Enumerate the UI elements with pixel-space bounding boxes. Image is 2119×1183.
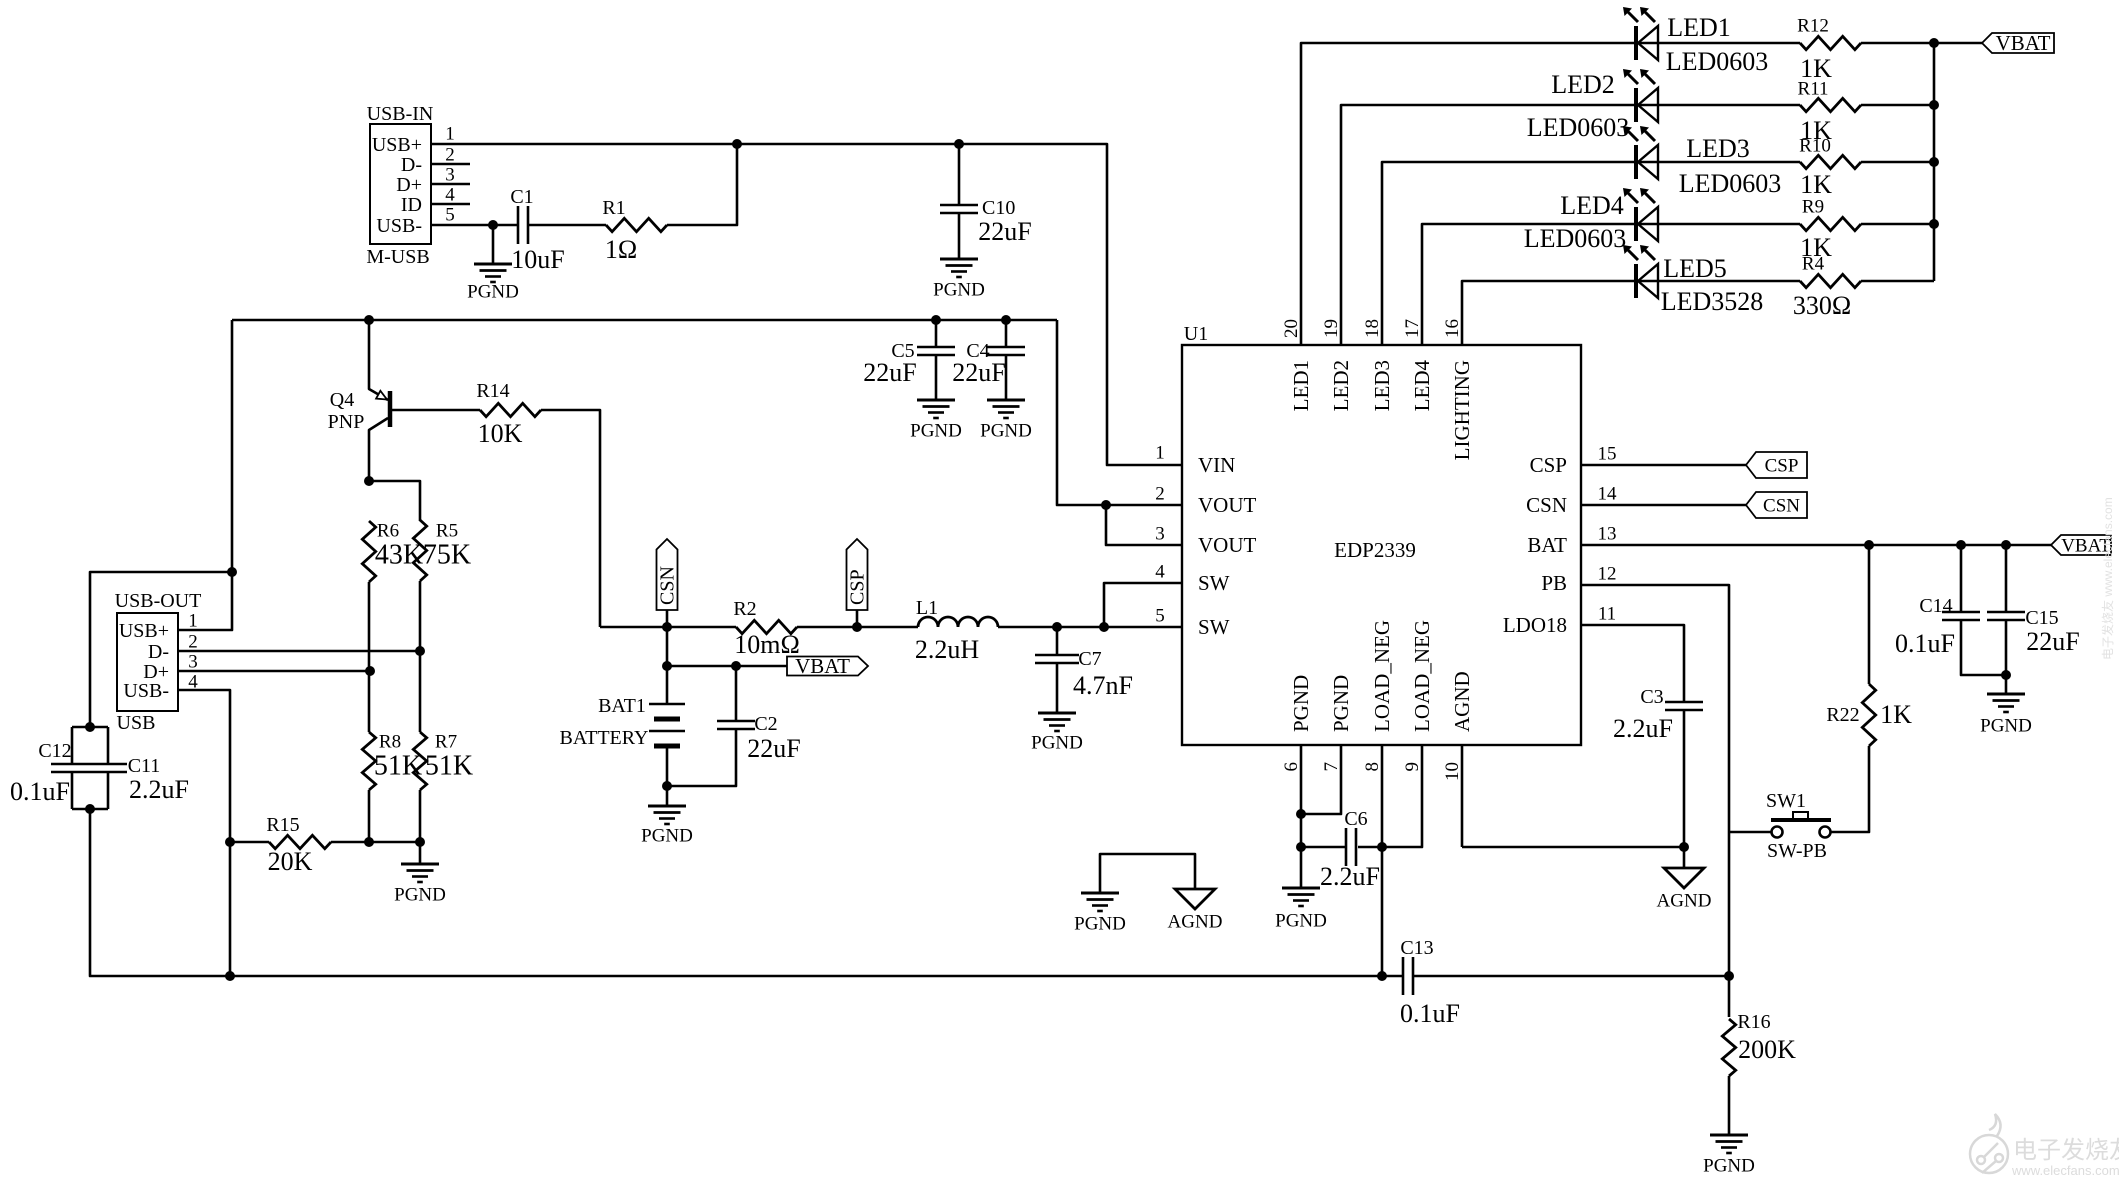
wire R22 bottom to SW1 — [1831, 746, 1869, 832]
svg-text:CSN: CSN — [657, 566, 679, 605]
wire USB+ bus to VIN — [431, 144, 1182, 465]
svg-text:电子发烧友 www.elecfans.com: 电子发烧友 www.elecfans.com — [2100, 497, 2115, 660]
svg-text:51K: 51K — [425, 751, 473, 782]
ground PGND under C15 — [1987, 694, 2025, 712]
svg-text:CSP: CSP — [847, 569, 869, 605]
svg-text:PGND: PGND — [1980, 715, 2032, 736]
IC U1 EDP2339 body — [1182, 345, 1581, 745]
wire bus left drop to USB-OUT — [179, 320, 232, 630]
svg-text:USB-IN: USB-IN — [367, 103, 434, 125]
svg-text:C1: C1 — [510, 186, 533, 208]
wire R15 left — [230, 841, 269, 844]
svg-text:CSN: CSN — [1763, 495, 1800, 516]
wire pin8 down — [1381, 745, 1384, 976]
svg-text:LED0603: LED0603 — [1524, 224, 1627, 253]
svg-text:9: 9 — [1402, 762, 1423, 772]
wire U1 pin to LED2 — [1341, 105, 1636, 345]
svg-text:USB-: USB- — [376, 215, 422, 237]
svg-text:LED0603: LED0603 — [1679, 169, 1782, 198]
svg-text:7: 7 — [1321, 762, 1342, 772]
svg-text:C13: C13 — [1400, 937, 1433, 959]
svg-text:PB: PB — [1541, 571, 1567, 595]
svg-text:PGND: PGND — [933, 279, 985, 300]
junction VBAT LED3 — [1929, 157, 1939, 167]
svg-text:LED4: LED4 — [1560, 191, 1624, 220]
svg-text:R8: R8 — [379, 731, 401, 752]
net flag CSP pin15 — [1746, 452, 1807, 478]
svg-text:U1: U1 — [1184, 323, 1208, 345]
wire VBAT node to flag — [667, 665, 787, 668]
wire pin9 down — [1358, 745, 1422, 847]
wire Q4 emitter from bus — [369, 320, 388, 400]
svg-text:VOUT: VOUT — [1198, 533, 1256, 557]
wire VOUT bus — [232, 319, 1057, 322]
svg-text:LDO18: LDO18 — [1503, 613, 1567, 637]
svg-text:CSN: CSN — [1526, 493, 1567, 517]
svg-text:2.2uH: 2.2uH — [915, 635, 980, 664]
svg-text:C12: C12 — [38, 740, 71, 762]
ground PGND under battery — [648, 806, 686, 824]
junction battery C2 bottom — [662, 781, 672, 791]
wire C12 rail bottom — [71, 772, 74, 809]
svg-text:C11: C11 — [128, 755, 161, 777]
ground AGND under C3 — [1664, 868, 1704, 888]
wire R22 top — [1868, 545, 1871, 684]
svg-text:USB-: USB- — [123, 680, 169, 702]
svg-text:R11: R11 — [1798, 78, 1829, 99]
wire R7 top — [419, 651, 422, 732]
svg-text:1: 1 — [188, 610, 198, 631]
junction D- R5 R7 — [415, 646, 425, 656]
svg-text:10: 10 — [1442, 762, 1463, 781]
svg-text:AGND: AGND — [1450, 671, 1474, 732]
wire C4 stem — [1005, 320, 1008, 347]
wire LED5 to resistor — [1636, 280, 1800, 283]
junction SW pins node — [1099, 622, 1109, 632]
wire R14 down to SW node — [541, 410, 600, 627]
svg-text:R14: R14 — [476, 380, 509, 402]
svg-text:LOAD_NEG: LOAD_NEG — [1370, 620, 1394, 732]
wire battery ground stem — [666, 786, 669, 806]
svg-text:VOUT: VOUT — [1198, 493, 1256, 517]
svg-text:10mΩ: 10mΩ — [734, 630, 800, 659]
svg-text:LED3528: LED3528 — [1661, 287, 1764, 316]
wire LED2 to resistor — [1636, 104, 1800, 107]
wire SW pin4 stub — [1104, 583, 1182, 627]
wire CSN node down to VBAT node — [666, 627, 669, 666]
junction C3 AGND — [1679, 842, 1689, 852]
svg-text:PGND: PGND — [1074, 913, 1126, 934]
wire C15 stem — [2005, 545, 2008, 612]
svg-text:PGND: PGND — [467, 281, 519, 302]
capacitor C1 — [518, 206, 528, 244]
junction pin8 C6 — [1377, 842, 1387, 852]
wire VOUT pin3 link — [1106, 505, 1182, 545]
wire battery top — [666, 666, 669, 704]
LED LED4 — [1623, 188, 1658, 241]
svg-text:22uF: 22uF — [863, 358, 916, 387]
junction VBAT LED1 — [1929, 38, 1939, 48]
svg-text:15: 15 — [1598, 443, 1617, 464]
resistor R8 — [362, 732, 375, 790]
junction bus C5 — [931, 315, 941, 325]
svg-text:USB+: USB+ — [119, 620, 169, 642]
wire USB-OUT D+ line — [178, 670, 370, 673]
wire R9 to bus — [1861, 223, 1934, 226]
wire PB pin12 to SW1 — [1581, 585, 1729, 976]
svg-text:R6: R6 — [377, 520, 399, 541]
wire Q4 collector — [369, 418, 388, 481]
svg-text:22uF: 22uF — [2026, 627, 2079, 656]
resistor R2 — [736, 620, 797, 633]
svg-text:LED4: LED4 — [1410, 360, 1434, 412]
wire LED3 to resistor — [1636, 161, 1800, 164]
junction USB+ R1 branch — [732, 139, 742, 149]
capacitor C14 — [1942, 612, 1980, 620]
wire branch to C12 C11 — [90, 572, 232, 727]
svg-text:PGND: PGND — [1031, 732, 1083, 753]
capacitor C2 — [717, 721, 755, 729]
power flag VBAT bat — [2051, 535, 2111, 556]
wire C11 rail bottom — [107, 772, 110, 809]
svg-text:R9: R9 — [1802, 196, 1824, 217]
svg-text:PGND: PGND — [1275, 910, 1327, 931]
wire U1 pin to LED5 — [1462, 281, 1636, 345]
svg-text:22uF: 22uF — [747, 734, 800, 763]
switch SW1 actuator — [1771, 812, 1831, 820]
svg-text:R16: R16 — [1737, 1011, 1770, 1033]
svg-text:0.1uF: 0.1uF — [1895, 629, 1955, 658]
wire R16 bottom — [1728, 1076, 1731, 1135]
svg-text:C14: C14 — [1919, 595, 1952, 617]
svg-text:10K: 10K — [478, 419, 523, 448]
svg-text:4: 4 — [1155, 561, 1165, 582]
connector USB-IN (M-USB) — [370, 124, 431, 244]
svg-text:C3: C3 — [1640, 686, 1663, 708]
wire cap pair top tie — [72, 726, 108, 729]
ground PGND under C7 — [1038, 713, 1076, 731]
svg-text:LED5: LED5 — [1663, 254, 1727, 283]
svg-text:PGND: PGND — [1329, 675, 1353, 732]
svg-text:LED2: LED2 — [1329, 360, 1353, 411]
svg-text:C6: C6 — [1344, 808, 1367, 830]
svg-text:SW: SW — [1198, 615, 1230, 639]
connector USB-OUT — [117, 613, 178, 711]
svg-text:VBAT: VBAT — [1996, 31, 2051, 55]
svg-text:10uF: 10uF — [511, 245, 564, 274]
wire USB-IN ID stub — [431, 203, 470, 206]
svg-text:17: 17 — [1402, 319, 1423, 338]
junction VBAT LED4 — [1929, 219, 1939, 229]
wire R11 to bus — [1861, 104, 1934, 107]
ground PGND under C5 — [917, 400, 955, 418]
svg-text:LED0603: LED0603 — [1666, 47, 1769, 76]
capacitor C4 — [987, 347, 1025, 355]
svg-text:CSP: CSP — [1530, 453, 1567, 477]
svg-text:VIN: VIN — [1198, 453, 1235, 477]
wire USB-IN D+ stub — [431, 183, 470, 186]
resistor R14 — [480, 403, 541, 416]
resistor R1 — [606, 218, 667, 231]
svg-text:LED1: LED1 — [1289, 360, 1313, 411]
inductor L1 — [918, 617, 998, 627]
svg-text:22uF: 22uF — [978, 217, 1031, 246]
junction Q4 collector node — [364, 476, 374, 486]
ground PGND under pin6 — [1282, 888, 1320, 906]
junction C2 top — [731, 661, 741, 671]
svg-text:1Ω: 1Ω — [605, 235, 637, 264]
svg-text:CSP: CSP — [1765, 455, 1799, 476]
junction bottom bus pin8 — [1377, 971, 1387, 981]
ground AGND standalone — [1175, 889, 1215, 909]
resistor R16 — [1722, 1019, 1735, 1076]
resistor R15 — [269, 835, 331, 848]
resistor R5 — [413, 520, 426, 581]
svg-text:14: 14 — [1598, 483, 1618, 504]
capacitor C7 — [1035, 655, 1079, 663]
svg-text:1: 1 — [445, 123, 455, 144]
wire C5 stem — [935, 320, 938, 347]
svg-text:13: 13 — [1598, 523, 1617, 544]
wire C7 to ground — [1056, 663, 1059, 713]
watermark logo — [1970, 1114, 2008, 1173]
svg-text:0.1uF: 0.1uF — [10, 777, 70, 806]
capacitor C12 and C11 plates — [51, 764, 127, 772]
wire R12 to VBAT — [1861, 42, 1982, 45]
wire USB-OUT D- line — [178, 650, 420, 653]
wire C15 bottom — [2005, 620, 2008, 694]
junction C14 C15 ground — [2001, 670, 2011, 680]
svg-text:PGND: PGND — [394, 884, 446, 905]
svg-text:R2: R2 — [733, 598, 756, 620]
wire C5 to ground — [935, 355, 938, 400]
svg-text:R4: R4 — [1802, 253, 1825, 274]
wire R2 to L1 — [797, 626, 918, 629]
svg-text:LED1: LED1 — [1667, 13, 1731, 42]
wire SW row — [600, 626, 736, 629]
svg-text:R7: R7 — [435, 731, 457, 752]
wire C6 left — [1301, 846, 1346, 849]
wire USB-IN USB- to C1 — [431, 224, 517, 227]
svg-text:PGND: PGND — [980, 420, 1032, 441]
svg-text:19: 19 — [1321, 319, 1342, 338]
wire R1 to USB+ bus — [667, 144, 737, 225]
wire C4 to ground — [1005, 355, 1008, 400]
svg-text:R15: R15 — [266, 814, 299, 836]
wire USB- out down — [178, 690, 230, 976]
svg-text:Q4: Q4 — [330, 389, 354, 411]
svg-text:20K: 20K — [268, 847, 313, 876]
wire C1 node to ground — [492, 225, 495, 264]
wire LED1 to resistor — [1636, 42, 1800, 45]
svg-text:51K: 51K — [374, 751, 422, 782]
wire CSN pin14 — [1581, 504, 1746, 507]
svg-text:LED3: LED3 — [1370, 360, 1394, 411]
capacitor C3 — [1665, 702, 1703, 710]
svg-text:LIGHTING: LIGHTING — [1450, 360, 1474, 460]
power flag VBAT battery — [787, 654, 868, 678]
svg-text:5: 5 — [1155, 605, 1165, 626]
net flag CSN pin14 — [1746, 492, 1807, 518]
wire pin6 down — [1300, 745, 1303, 888]
svg-text:4: 4 — [445, 184, 455, 205]
resistor R4 — [1800, 274, 1861, 287]
junction C12 C11 top — [85, 722, 95, 732]
LED LED2 — [1623, 69, 1658, 122]
svg-text:LED2: LED2 — [1551, 70, 1615, 99]
junction C12 C11 bottom — [85, 804, 95, 814]
svg-text:SW: SW — [1198, 571, 1230, 595]
svg-text:EDP2339: EDP2339 — [1334, 538, 1416, 562]
wire BAT pin13 to VBAT — [1581, 544, 2051, 547]
svg-text:M-USB: M-USB — [366, 246, 429, 268]
junction VBAT node — [662, 661, 672, 671]
svg-text:BAT: BAT — [1527, 533, 1567, 557]
junction VOUT pins — [1101, 500, 1111, 510]
svg-text:PNP: PNP — [328, 411, 365, 433]
svg-text:LED3: LED3 — [1686, 134, 1750, 163]
svg-text:C10: C10 — [982, 197, 1015, 219]
LED LED3 — [1623, 126, 1658, 179]
capacitor C13 — [1403, 957, 1413, 995]
svg-text:PGND: PGND — [1703, 1155, 1755, 1176]
capacitor C6 — [1346, 828, 1356, 866]
wire LED4 to resistor — [1636, 223, 1800, 226]
net flag CSP — [847, 539, 869, 610]
svg-text:PGND: PGND — [641, 825, 693, 846]
svg-text:www.elecfans.com: www.elecfans.com — [2011, 1163, 2119, 1178]
svg-text:R12: R12 — [1797, 15, 1829, 36]
ground PGND under R7 — [401, 864, 439, 882]
svg-text:PGND: PGND — [910, 420, 962, 441]
junction R15 R8 — [364, 837, 374, 847]
svg-text:PGND: PGND — [1289, 675, 1313, 732]
wire C3 bottom — [1683, 710, 1686, 847]
svg-text:C2: C2 — [754, 713, 777, 735]
wire R16 top — [1728, 976, 1731, 1017]
junction BAT R22 — [1864, 540, 1874, 550]
svg-text:USB-OUT: USB-OUT — [115, 590, 202, 612]
svg-text:2: 2 — [188, 631, 198, 652]
wire C7 stem — [1056, 627, 1059, 655]
svg-text:22uF: 22uF — [952, 358, 1005, 387]
ground PGND under R16 — [1710, 1135, 1748, 1153]
wire bus to VOUT pin2 — [1057, 320, 1182, 505]
wire USB-IN D- stub — [431, 163, 470, 166]
wire node to R5 top — [369, 481, 420, 521]
svg-text:AGND: AGND — [1168, 911, 1223, 932]
wire R10 to bus — [1861, 161, 1934, 164]
wire C2 top stem — [735, 666, 738, 721]
wire R5 bottom to D- line — [419, 581, 422, 651]
ground PGND under C4 — [987, 400, 1025, 418]
svg-text:3: 3 — [445, 164, 455, 185]
svg-text:R5: R5 — [436, 520, 458, 541]
wire pin10 to AGND — [1462, 846, 1684, 849]
svg-text:11: 11 — [1598, 603, 1616, 624]
junction CSN node — [662, 622, 672, 632]
wire U1 pin to LED1 — [1301, 43, 1636, 345]
wire C14 bottom — [1961, 620, 2006, 675]
svg-text:R10: R10 — [1799, 135, 1831, 156]
junction BAT C15 — [2001, 540, 2011, 550]
svg-text:3: 3 — [188, 651, 198, 672]
svg-text:1: 1 — [1155, 442, 1165, 463]
svg-text:0.1uF: 0.1uF — [1400, 999, 1460, 1028]
switch SW1 contacts — [1772, 827, 1831, 838]
resistor R11 — [1800, 98, 1861, 111]
net tie PGND AGND — [1100, 854, 1195, 893]
wire C14 stem — [1960, 545, 1963, 612]
svg-text:ID: ID — [401, 194, 422, 216]
wire LED VBAT bus — [1933, 43, 1936, 281]
svg-text:2.2uF: 2.2uF — [1613, 714, 1673, 743]
LED LED5 — [1623, 245, 1658, 298]
transistor Q4 base bar — [388, 391, 393, 427]
ground PGND standalone — [1081, 893, 1119, 911]
junction D+ R6 R8 — [365, 666, 375, 676]
resistor R22 — [1862, 684, 1875, 746]
svg-text:C7: C7 — [1078, 648, 1101, 670]
capacitor C15 — [1987, 612, 2025, 620]
wire C12 rail top — [71, 727, 74, 764]
svg-text:330Ω: 330Ω — [1793, 291, 1851, 320]
resistor R9 — [1800, 217, 1861, 230]
wire cap pair bottom tie — [72, 808, 108, 811]
ground PGND under C1 — [474, 264, 512, 282]
ground PGND under C10 — [940, 259, 978, 277]
wire C2 bottom — [667, 729, 736, 786]
wire R8 bottom — [368, 790, 371, 842]
svg-text:BATTERY: BATTERY — [560, 727, 649, 749]
svg-text:6: 6 — [1281, 762, 1302, 772]
svg-text:18: 18 — [1362, 319, 1383, 338]
wire bottom bus right of C13 — [1413, 975, 1729, 978]
transistor Q4 emitter arrow — [376, 391, 387, 400]
junction C7 node — [1052, 622, 1062, 632]
svg-text:D-: D- — [401, 154, 422, 176]
svg-text:D-: D- — [148, 641, 169, 663]
svg-text:12: 12 — [1598, 563, 1617, 584]
junction USB- C1 node — [488, 220, 498, 230]
wire U1 pin to LED4 — [1422, 224, 1636, 345]
svg-text:2: 2 — [445, 144, 455, 165]
svg-text:USB: USB — [117, 712, 156, 734]
net flag CSN — [657, 539, 679, 610]
svg-text:2.2uF: 2.2uF — [1320, 862, 1380, 891]
wire Q4 base to R14 — [392, 409, 480, 412]
wire pin10 down — [1461, 745, 1464, 847]
svg-text:20: 20 — [1281, 319, 1302, 338]
svg-text:AGND: AGND — [1657, 890, 1712, 911]
capacitor C10 — [940, 205, 978, 213]
battery BAT1 — [649, 704, 685, 746]
junction BAT C14 — [1956, 540, 1966, 550]
resistor R10 — [1800, 155, 1861, 168]
svg-text:USB+: USB+ — [372, 134, 422, 156]
wire CSP flag stem — [856, 610, 859, 627]
wire AGND stem — [1683, 847, 1686, 868]
svg-text:电子发烧友: 电子发烧友 — [2013, 1137, 2119, 1164]
resistor R6 — [362, 521, 375, 582]
junction bottom bus R16 — [1724, 971, 1734, 981]
svg-text:2.2uF: 2.2uF — [129, 775, 189, 804]
wire C11 rail top — [107, 727, 110, 764]
svg-text:SW-PB: SW-PB — [1767, 840, 1827, 862]
wire pin7 down — [1301, 745, 1341, 814]
svg-text:VBAT: VBAT — [795, 654, 850, 678]
svg-text:R1: R1 — [602, 197, 625, 219]
